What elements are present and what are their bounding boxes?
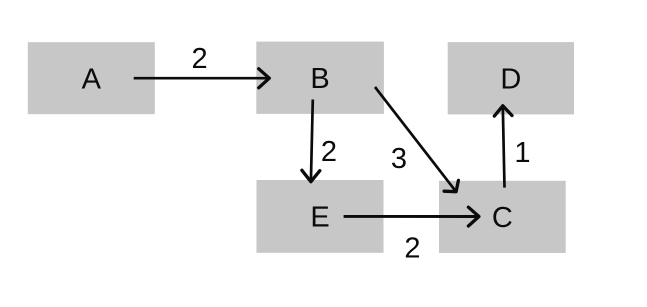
edge E to C arrowhead [468,207,479,226]
svg-text:A: A [82,63,102,95]
edge E to C wire [344,215,479,218]
svg-text:2: 2 [321,136,337,168]
node A box [28,42,155,114]
edge B to C arrowhead [444,180,458,191]
edge B to E arrowhead [302,170,320,181]
edge A to B arrowhead [259,69,270,88]
node E box [257,180,384,253]
edge A to B wire [134,77,270,80]
svg-text:2: 2 [192,43,208,75]
node B box [256,42,384,114]
svg-text:E: E [310,202,329,234]
svg-text:3: 3 [391,143,407,175]
edge B to C wire [375,87,456,192]
edge B to E wire [311,100,313,182]
edge C to D arrowhead [494,106,512,116]
svg-text:C: C [492,202,513,234]
node C box [439,181,566,253]
svg-text:D: D [500,63,521,95]
svg-text:2: 2 [404,233,420,265]
node D box [448,42,574,114]
svg-text:1: 1 [514,137,530,169]
svg-text:B: B [310,63,329,95]
edge C to D wire [503,106,505,188]
